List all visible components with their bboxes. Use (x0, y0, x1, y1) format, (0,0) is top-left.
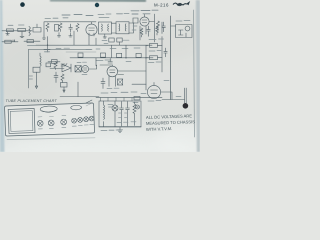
label VOL (29, 76, 33, 79)
IF bus wire (70, 57, 153, 59)
IF transformer T2 (116, 22, 129, 34)
label R8 (28, 45, 36, 47)
junction node C (145, 57, 146, 58)
label 455KC T2 (117, 13, 130, 15)
wire y84 (132, 83, 146, 85)
coil L1 (29, 27, 30, 36)
ground chassis (118, 127, 123, 132)
label V2 row (131, 10, 158, 14)
capacitor C2 (55, 25, 59, 32)
label bus values (86, 48, 100, 51)
resistor R18 (140, 28, 143, 37)
oscillator coil L2 (40, 53, 41, 66)
small can oval (71, 105, 82, 110)
top photo edge streak (50, 0, 146, 2)
T2 windings (119, 24, 126, 31)
ground G3 (69, 33, 72, 37)
filter choke L3 (104, 101, 105, 127)
label OSC (44, 50, 50, 52)
pilot lamp leads (185, 88, 187, 103)
label 35W4 (148, 81, 169, 102)
socket top labels (38, 115, 66, 116)
IF transformer T1 (99, 22, 112, 34)
X3 cross (62, 120, 66, 124)
wire to output subcircuit (171, 25, 176, 27)
tube V4 50C5 (107, 66, 118, 77)
handwritten blob (177, 3, 182, 6)
junction node A (47, 45, 48, 46)
right table edge strip (196, 0, 200, 152)
power box bottom wire (99, 126, 141, 128)
transformer circle T3 (82, 66, 89, 73)
capacitor C17 (147, 26, 150, 36)
capacitor C11 (136, 53, 141, 57)
wire T1-T2 (112, 23, 117, 33)
trimmer C7 (61, 64, 67, 67)
resistor R3 (46, 23, 49, 32)
resistor R11 (117, 38, 122, 42)
capacitor C9 (101, 53, 106, 57)
label right mid2 (148, 61, 161, 64)
resistor R4 (59, 23, 62, 32)
filter cap C15 (120, 102, 124, 127)
label mixer values (56, 47, 70, 49)
wire V4 cathode (109, 76, 116, 86)
rectifier SR1 (112, 105, 118, 111)
svg-text:TUBE PLACEMENT CHART: TUBE PLACEMENT CHART (6, 99, 58, 103)
resistor R10 (109, 38, 114, 42)
capacitor C4 (162, 22, 166, 34)
wire screen V3 (145, 45, 147, 90)
wire grid V3 (111, 45, 113, 58)
resistor R17 (133, 102, 136, 126)
label 455KC T1 (98, 14, 111, 18)
subcircuit parts (179, 30, 187, 37)
wire V1 grid (47, 37, 49, 53)
wiper arrow A2 (63, 87, 65, 92)
label 047 (82, 74, 87, 76)
left table edge strip (0, 0, 5, 152)
second cord component wire (24, 40, 40, 42)
wire osc row (50, 68, 64, 70)
oscillator box left edge (28, 50, 30, 89)
wire to bus (44, 22, 96, 36)
svg-text:WITH V.T.V.M.: WITH V.T.V.M. (146, 126, 172, 132)
X5 cross (78, 118, 81, 121)
label power top (101, 92, 146, 94)
oscillator box top edge (29, 49, 93, 51)
tube V2 internals (142, 14, 147, 22)
handwritten figure mark (173, 2, 189, 5)
dial pointer dot (183, 103, 189, 109)
tube socket X3 (61, 119, 67, 125)
X1 cross (38, 121, 42, 125)
speaker outer frame (8, 109, 35, 134)
dial lamp leads (136, 106, 139, 109)
resistor R20 (134, 97, 140, 100)
tube socket X2 (48, 120, 54, 126)
resistor R6 (157, 21, 160, 31)
wire C10 drop (125, 45, 127, 58)
cap polarity marks (119, 113, 127, 118)
label cap values (117, 121, 136, 124)
resistor R19 (156, 26, 159, 35)
AC plug wires (86, 100, 92, 106)
label 470K (77, 61, 87, 63)
label under V4 (107, 87, 119, 89)
T3 internals (83, 68, 87, 70)
T1 windings (102, 24, 109, 31)
ground G5 (42, 36, 45, 39)
volume control R14 (33, 67, 40, 72)
tube V4 internals (110, 65, 116, 73)
label R20 (133, 102, 138, 104)
label right mid (149, 39, 164, 51)
dial lamp I1 (136, 105, 140, 109)
power supply box (99, 101, 141, 127)
tube socket X5 (78, 117, 83, 122)
tube V1 12BA6 (86, 24, 97, 35)
detector cluster (133, 18, 138, 23)
ground G1 (20, 32, 24, 38)
converter stage cluster (33, 24, 41, 32)
resistor R1 (6, 29, 13, 32)
capacitor C10 (117, 53, 122, 57)
X2 cross (49, 121, 53, 125)
capacitor C12 (52, 60, 58, 64)
wire V4 plate (118, 71, 146, 75)
tube V5 35W4 (147, 85, 160, 98)
audio box left edge (77, 82, 79, 97)
speaker inner frame (10, 111, 33, 132)
tube V2 12AT6 (140, 17, 149, 26)
speaker jack J1 (185, 26, 190, 31)
capacitor C14 (101, 78, 105, 89)
capacitor C3 (69, 24, 73, 32)
rectifier leads (113, 101, 117, 127)
ground G4 (103, 34, 106, 38)
label top mid rows (102, 40, 129, 43)
label L-ANT (8, 24, 24, 26)
capacitor C6 (46, 63, 51, 67)
wire V1 cathode to bus (88, 36, 90, 45)
power top wire (96, 97, 162, 99)
tube socket X1 (37, 120, 43, 126)
volume wiper arrow (35, 72, 37, 88)
right page border (193, 10, 196, 137)
chart border (5, 103, 95, 136)
label near dot (176, 96, 181, 98)
interstage box with X (75, 66, 81, 72)
tube V1 internals (89, 22, 95, 36)
resistor R5 (76, 24, 79, 32)
resistor R2 (18, 28, 26, 31)
label near V4 plate (126, 61, 131, 63)
resistor R13 (150, 56, 158, 60)
wire V5 out (161, 92, 172, 100)
diode D1 (62, 64, 71, 72)
rectifier plate marks (108, 105, 113, 108)
label 12BE6 (62, 15, 93, 18)
push pin dot left (20, 2, 25, 7)
wire plate branch (161, 37, 163, 73)
resistor R7 (5, 40, 11, 43)
wire IF grid return (73, 31, 75, 45)
wire R11 drop (119, 42, 121, 45)
svg-text:M-216: M-216 (154, 2, 169, 7)
capacitor C5 (13, 40, 15, 42)
label top right (176, 20, 190, 22)
capacitor C19 (108, 58, 112, 63)
tube socket X6 (84, 117, 89, 122)
push pin dot right (95, 3, 99, 7)
capacitor C13 (54, 72, 58, 83)
output subcircuit frame (176, 25, 193, 38)
X4 cross (72, 119, 75, 122)
resistor R15 (61, 74, 64, 83)
wire to V4 (89, 58, 112, 69)
tube placement chart group (5, 103, 95, 136)
socket labels (38, 124, 94, 129)
tube socket X7 (89, 116, 94, 121)
label mid small (110, 47, 140, 50)
capacitor C18 (164, 48, 167, 57)
X mark M1 (118, 79, 123, 85)
gang capacitor top view (40, 106, 57, 113)
resistor R12 (150, 44, 158, 48)
wire V2 plate (139, 26, 141, 40)
wire B- run (162, 99, 185, 101)
X7 cross (90, 117, 93, 120)
tube V5 internals (151, 82, 158, 93)
tube socket X4 (72, 118, 77, 123)
antenna input wire (2, 30, 32, 32)
ground G2 (57, 33, 60, 38)
wire det row (48, 61, 60, 63)
wire mid segment (66, 51, 96, 53)
B bus wire (60, 96, 99, 98)
resistor R9 (54, 62, 57, 70)
capacitor C8 (78, 53, 83, 57)
gang capacitor rim (42, 110, 56, 112)
X6 cross (84, 118, 87, 121)
capacitor C1 (6, 32, 10, 35)
label osc padder (45, 17, 58, 19)
feedthrough wires (101, 98, 133, 101)
resistor R16 (118, 79, 123, 85)
resistor R8 (27, 40, 33, 43)
junction node B (125, 57, 126, 58)
paper background (0, 0, 200, 152)
label det values (132, 26, 137, 30)
bottom page border (7, 138, 95, 140)
filter cap C16 (126, 102, 130, 127)
wire T2 out (129, 23, 134, 33)
wire stage out (149, 14, 154, 42)
line cord resistor left (2, 41, 18, 43)
tone cap C20 (61, 83, 68, 88)
long B+ vertical wire (170, 16, 172, 100)
main AVC bus wire (36, 44, 152, 46)
label under power box (101, 129, 122, 132)
wire V2 grid (145, 26, 147, 34)
label 50C5 (96, 59, 111, 62)
wire x96 drop (95, 38, 97, 45)
wire R12-R13 (146, 45, 162, 57)
